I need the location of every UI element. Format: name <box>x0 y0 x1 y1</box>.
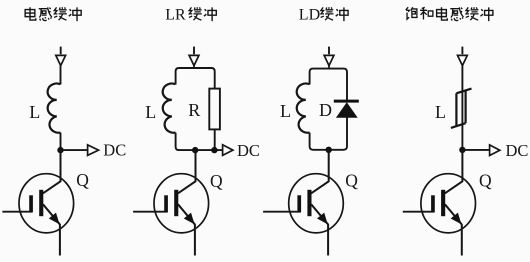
svg-text:Q: Q <box>479 170 492 190</box>
wire loop bottom circuit 2 <box>176 133 223 151</box>
wire collector circuit 3 <box>311 150 329 194</box>
transistor Q2 (IGBT) <box>133 174 209 256</box>
title LD缓冲 <box>299 7 348 24</box>
svg-text:R: R <box>188 100 200 120</box>
title LR缓冲 <box>165 7 216 24</box>
title 电感缓冲 <box>25 7 81 21</box>
node dot DC branch circuit 2 <box>211 147 217 153</box>
wire collector circuit 1 <box>43 150 61 193</box>
transistor Q4 (IGBT) <box>403 174 476 256</box>
wire arrow to inductor <box>60 66 62 85</box>
resistor R body <box>209 89 220 130</box>
saturable inductor L4 (hysteresis symbol) <box>451 89 472 128</box>
diode D cathode bar <box>334 100 359 103</box>
svg-text:D: D <box>319 100 332 120</box>
inductor L3 coil <box>297 84 310 133</box>
node junction dot circuit 4 <box>459 147 465 153</box>
input arrow (down) circuit 4 <box>458 47 468 66</box>
svg-text:Q: Q <box>210 171 223 191</box>
DC arrow circuit 2 <box>223 145 233 156</box>
svg-text:DC: DC <box>506 141 529 160</box>
svg-text:Q: Q <box>76 170 89 190</box>
svg-text:L: L <box>280 101 291 121</box>
svg-text:L: L <box>435 102 446 122</box>
title 饱和电感缓冲 <box>406 7 493 21</box>
wire collector circuit 2 <box>178 150 196 193</box>
node junction dot circuit 3 <box>326 147 332 153</box>
svg-text:DC: DC <box>237 141 260 160</box>
DC arrow circuit 1 <box>88 145 99 156</box>
svg-text:Q: Q <box>345 170 358 190</box>
node dot collector circuit 2 <box>192 147 198 153</box>
svg-text:DC: DC <box>103 141 126 160</box>
svg-text:L: L <box>145 102 156 122</box>
input arrow (down) circuit 2 <box>189 47 199 69</box>
wire loop top circuit 3 <box>310 69 347 101</box>
node junction dot circuit 1 <box>57 147 63 153</box>
svg-text:LR: LR <box>165 7 186 24</box>
transistor Q1 (IGBT) <box>2 174 73 256</box>
wire arrow to node circuit 4 <box>461 66 463 150</box>
wire collector circuit 4 <box>445 150 463 193</box>
inductor L2 coil <box>163 84 176 133</box>
wire resistor to bottom <box>214 129 216 150</box>
input arrow (down) circuit 3 <box>324 47 334 69</box>
input arrow (down) circuit 1 <box>56 47 66 66</box>
DC arrow circuit 4 <box>490 145 500 156</box>
svg-text:LD: LD <box>299 7 320 24</box>
svg-text:L: L <box>29 102 40 122</box>
diode D triangle <box>336 102 358 118</box>
wire node to DC arrow <box>61 149 88 151</box>
wire node to DC arrow circuit 4 <box>462 149 489 151</box>
wire loop bottom circuit 3 <box>310 117 347 150</box>
inductor L1 coil <box>48 84 61 133</box>
wire loop top circuit 2 <box>176 68 215 89</box>
wire inductor to node <box>60 133 62 151</box>
transistor Q3 (IGBT) <box>263 174 343 256</box>
